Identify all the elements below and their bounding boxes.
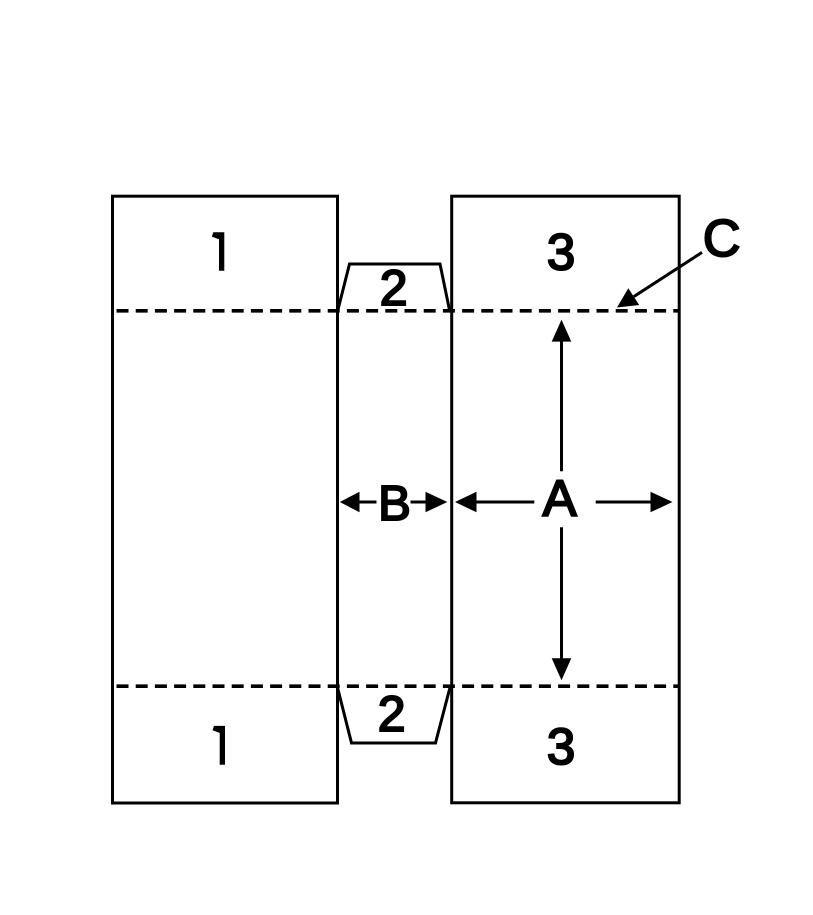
svg-text:3: 3 (547, 718, 575, 775)
panel 3 outline (right rectangle) (452, 196, 680, 803)
fold line bottom (dashed) (117, 684, 680, 688)
dimension B arrow right shaft (411, 501, 428, 504)
dimension A vertical top stem (560, 340, 563, 471)
flap 2 top (trapezoid between panels, top) (338, 264, 450, 312)
dimension B arrow left shaft (358, 501, 377, 504)
leader arrowhead C (617, 288, 639, 307)
svg-text:C: C (703, 210, 741, 268)
dimension B arrow right head (426, 492, 448, 513)
flap 2 bottom (trapezoid between panels, bottom) (337, 686, 451, 744)
label 1 top (212, 232, 225, 271)
dimension A horizontal right shaft (596, 501, 652, 504)
dimension A horizontal right head (651, 492, 673, 513)
leader line C (634, 252, 702, 296)
dimension A horizontal left head (455, 492, 477, 513)
dimension A vertical bottom stem (560, 527, 563, 660)
svg-text:2: 2 (378, 686, 406, 742)
panel 1 outline (left rectangle) (113, 196, 338, 803)
fold line top (dashed) (117, 309, 680, 313)
dimension A vertical top head (552, 320, 572, 342)
svg-text:A: A (543, 470, 577, 527)
dimension A horizontal left shaft (475, 501, 534, 504)
label 1 bottom (213, 726, 226, 765)
dimension A vertical bottom head (552, 658, 572, 680)
dimension B arrow left head (340, 492, 360, 513)
svg-text:3: 3 (547, 223, 575, 280)
svg-text:2: 2 (380, 260, 408, 316)
svg-text:B: B (378, 477, 411, 531)
